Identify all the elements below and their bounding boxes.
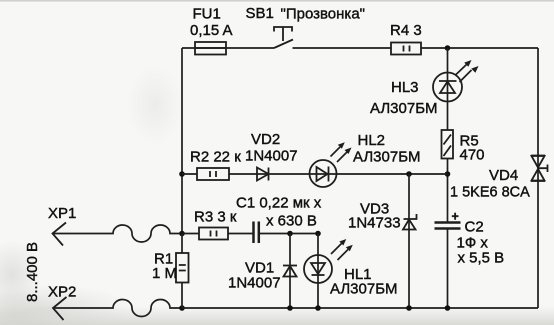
wire: middle rail — [182, 173, 448, 175]
wire: HL1 branch — [317, 234, 319, 309]
diode VD1 — [283, 266, 297, 277]
wire: XP1 lead with flexible loops — [53, 225, 183, 242]
svg-text:C2: C2 — [465, 219, 484, 236]
node: XP2 / R1 junction — [179, 305, 185, 311]
node: VD1 bottom — [287, 305, 293, 311]
svg-text:XP1: XP1 — [48, 205, 76, 222]
node: VD3 bottom — [406, 305, 412, 311]
resistor R3 — [199, 228, 228, 240]
wire: top rail — [182, 47, 538, 49]
svg-text:SB1: SB1 — [246, 5, 274, 22]
wire: VD3 branch — [408, 174, 410, 308]
wire: right vertical rail — [537, 48, 539, 308]
LED HL3 — [433, 60, 479, 102]
svg-text:470: 470 — [460, 147, 485, 164]
svg-text:R4 3: R4 3 — [390, 22, 422, 39]
wire: left vertical branch — [181, 48, 183, 234]
svg-text:1N4007: 1N4007 — [245, 148, 298, 165]
LED HL2 — [310, 142, 352, 187]
svg-text:1 М: 1 М — [152, 265, 177, 282]
svg-text:C1 0,22 мк х: C1 0,22 мк х — [236, 195, 322, 212]
connector XP2 — [53, 297, 67, 320]
wire: HL3-R5-C2 branch — [447, 48, 449, 308]
node: left rail / middle rail junction — [179, 171, 185, 177]
capacitor C2 — [435, 223, 461, 229]
svg-text:х 5,5 В: х 5,5 В — [458, 250, 505, 267]
resistor R5 — [442, 130, 454, 159]
capacitor C1 — [254, 222, 259, 244]
wire: XP2 lead with flexible loops — [53, 300, 182, 317]
resistor R1 — [176, 234, 189, 309]
diode VD2 — [257, 168, 269, 181]
node: R5 / middle rail / C2 junction — [445, 171, 451, 177]
node: HL1 bottom — [315, 305, 321, 311]
svg-text:+: + — [452, 210, 459, 224]
svg-text:"Прозвонка": "Прозвонка" — [281, 5, 366, 22]
svg-text:1N4007: 1N4007 — [228, 275, 281, 292]
fuse FU1 — [195, 42, 226, 55]
svg-text:8...400 В: 8...400 В — [24, 242, 41, 302]
svg-text:АЛ307БМ: АЛ307БМ — [330, 281, 398, 298]
svg-text:АЛ307БМ: АЛ307БМ — [353, 149, 421, 166]
node: C2 bottom — [445, 305, 451, 311]
svg-text:HL3: HL3 — [391, 79, 419, 96]
wire: XP1 row to C1 — [182, 233, 318, 235]
wire: VD1 branch — [289, 234, 291, 309]
TVS diode VD4 — [531, 156, 548, 182]
pushbutton SB1 — [274, 27, 293, 48]
LED HL1 — [304, 239, 353, 283]
node: junction top rail / HL3 branch — [445, 45, 451, 51]
resistor R4 — [391, 43, 421, 55]
svg-text:R3 3 к: R3 3 к — [194, 209, 237, 226]
connector XP1 — [53, 223, 67, 246]
svg-text:HL2: HL2 — [358, 132, 386, 149]
svg-text:0,15 A: 0,15 A — [190, 22, 233, 39]
resistor R2 — [197, 168, 229, 180]
node: middle rail / VD3 junction — [406, 171, 412, 177]
svg-text:1N4733: 1N4733 — [348, 215, 401, 232]
node: C1 / VD1 junction — [287, 231, 293, 237]
svg-text:VD2: VD2 — [251, 131, 280, 148]
svg-text:х 630 В: х 630 В — [266, 213, 317, 230]
svg-text:АЛ307БМ: АЛ307БМ — [370, 100, 438, 117]
svg-text:1 5KE6 8CA: 1 5KE6 8CA — [450, 185, 530, 201]
svg-text:XP2: XP2 — [48, 284, 76, 301]
svg-text:FU1: FU1 — [193, 6, 221, 23]
node: HL1 top corner — [315, 231, 321, 237]
svg-text:R2 22 к: R2 22 к — [190, 149, 241, 166]
wire: bottom rail — [182, 307, 538, 309]
node: XP1 / left rail / R1 junction — [179, 231, 185, 237]
zener VD3 — [403, 214, 417, 230]
svg-text:VD4: VD4 — [489, 167, 518, 184]
